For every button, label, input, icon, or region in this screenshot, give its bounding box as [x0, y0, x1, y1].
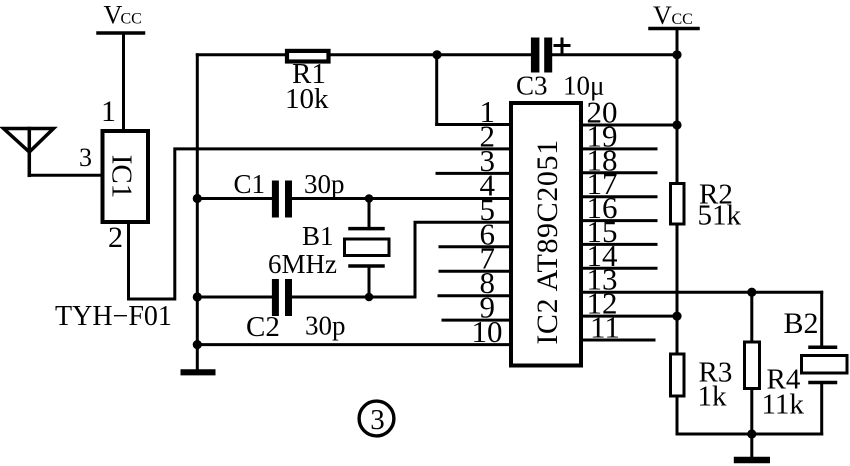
svg-text:1: 1: [101, 95, 116, 128]
svg-text:C2: C2: [246, 311, 280, 343]
svg-text:30p: 30p: [305, 311, 346, 341]
svg-text:CC: CC: [672, 11, 693, 28]
svg-text:IC1: IC1: [106, 155, 138, 199]
svg-text:B2: B2: [784, 307, 819, 340]
svg-text:V: V: [653, 1, 672, 30]
svg-text:C3: C3: [516, 71, 548, 101]
svg-text:11k: 11k: [762, 389, 805, 421]
svg-text:3: 3: [79, 143, 92, 172]
svg-text:3: 3: [370, 404, 385, 436]
svg-text:TYH−F01: TYH−F01: [55, 301, 172, 332]
svg-text:C1: C1: [234, 169, 266, 199]
svg-text:2: 2: [108, 221, 123, 254]
svg-text:IC2 AT89C2051: IC2 AT89C2051: [531, 139, 564, 344]
svg-text:11: 11: [590, 310, 620, 345]
svg-text:30p: 30p: [304, 169, 345, 199]
svg-text:51k: 51k: [698, 200, 742, 232]
svg-text:10k: 10k: [285, 83, 329, 115]
svg-text:B1: B1: [302, 221, 334, 251]
svg-text:1k: 1k: [698, 381, 728, 413]
svg-text:6MHz: 6MHz: [268, 249, 337, 279]
svg-text:CC: CC: [121, 11, 142, 28]
svg-text:10: 10: [472, 314, 503, 349]
